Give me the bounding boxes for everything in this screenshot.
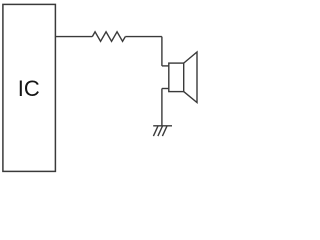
wire: [125, 36, 162, 38]
wire: [161, 89, 163, 126]
wire: [162, 88, 169, 90]
ground: [153, 126, 172, 136]
wire: [162, 65, 169, 67]
wire: [55, 36, 92, 38]
wire: [161, 37, 163, 66]
IC: [3, 4, 56, 171]
speaker: [169, 52, 197, 103]
resistor: [92, 32, 125, 42]
svg-text:IC: IC: [18, 76, 40, 101]
